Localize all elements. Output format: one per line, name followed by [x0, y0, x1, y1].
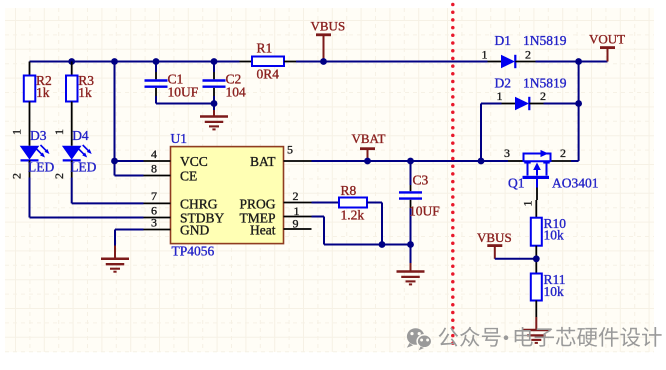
svg-text:10k: 10k: [544, 228, 565, 243]
ground U1: [101, 246, 129, 272]
label U1: [171, 131, 188, 146]
junction R8 bottom: [379, 241, 386, 248]
wire C1-C2 bottom: [156, 103, 214, 105]
wire R1-D1: [296, 61, 488, 63]
capacitor C3: [399, 161, 440, 245]
svg-text:R8: R8: [341, 183, 357, 198]
pin 2 U1: [284, 189, 312, 203]
junction VCC feed: [111, 158, 118, 165]
svg-text:LED: LED: [28, 160, 54, 175]
op-amp U1 TP4056 body: [171, 147, 284, 244]
resistor R1: [240, 41, 297, 82]
LED D3: [10, 102, 55, 180]
svg-text:VOUT: VOUT: [589, 32, 625, 47]
junction C2-bus: [211, 58, 218, 65]
svg-text:2: 2: [293, 189, 299, 203]
wire D2 anode: [480, 104, 482, 162]
svg-text:Q1: Q1: [508, 176, 525, 191]
resistor R10: [521, 188, 567, 246]
svg-text:10k: 10k: [544, 284, 565, 299]
pin 8 U1: [144, 161, 171, 175]
power VOUT: [589, 32, 625, 62]
junction C3 bottom: [407, 241, 414, 248]
svg-text:0R4: 0R4: [257, 67, 280, 82]
pin 7 U1: [144, 189, 171, 203]
svg-text:3: 3: [504, 146, 510, 160]
LED D4: [52, 102, 97, 180]
wire R8-bottom: [367, 203, 382, 245]
wire bus to VCC/CE: [115, 62, 144, 176]
label TP4056: [172, 244, 215, 259]
svg-text:1: 1: [482, 48, 488, 62]
ground R11: [522, 301, 550, 343]
svg-text:PROG: PROG: [239, 196, 275, 211]
svg-text:VCC: VCC: [180, 154, 208, 169]
wire TMEP-bottom: [312, 217, 411, 245]
power VBUS top: [311, 19, 346, 62]
svg-text:1: 1: [52, 129, 66, 135]
pin 5 U1: [284, 143, 312, 162]
pin 4 U1: [144, 147, 171, 161]
junction C2-gnd: [211, 100, 218, 107]
junction D2 feed: [478, 158, 485, 165]
wire VOUT rail: [578, 62, 580, 162]
pin 3 U1: [144, 215, 171, 229]
svg-text:104: 104: [226, 85, 247, 100]
junction VBUS divider: [533, 255, 540, 262]
svg-text:D1: D1: [495, 33, 512, 48]
svg-text:1: 1: [497, 89, 503, 103]
wire D4-CHRG: [72, 178, 144, 204]
svg-text:1k: 1k: [36, 85, 50, 100]
ground C2: [200, 104, 228, 130]
wire R10-R11: [535, 246, 537, 274]
resistor R11: [531, 272, 566, 301]
svg-text:AO3401: AO3401: [552, 176, 599, 191]
pin 9 U1: [284, 217, 312, 231]
wire D3-STDBY: [30, 178, 144, 218]
svg-text:2: 2: [525, 48, 531, 62]
svg-text:5: 5: [287, 143, 293, 157]
capacitor C1: [145, 62, 199, 104]
junction D2 out: [575, 100, 582, 107]
wire top VBUS bus: [30, 61, 240, 63]
wire GND pin: [115, 230, 144, 246]
power VBAT: [352, 131, 386, 161]
ground C3: [397, 245, 425, 285]
junction C3 top: [407, 158, 414, 165]
svg-text:C3: C3: [413, 173, 429, 188]
diode D1: [482, 33, 567, 68]
watermark logo: [407, 328, 432, 350]
junction C1-bus: [153, 58, 160, 65]
svg-text:VBAT: VBAT: [352, 131, 386, 146]
svg-text:CHRG: CHRG: [180, 196, 218, 211]
watermark text: [439, 327, 662, 347]
wire BAT row: [312, 160, 509, 162]
svg-text:10UF: 10UF: [168, 85, 199, 100]
svg-text:10UF: 10UF: [409, 204, 440, 219]
svg-text:VBUS: VBUS: [311, 19, 346, 34]
svg-text:1.2k: 1.2k: [341, 208, 365, 223]
resistor R2: [24, 62, 52, 102]
junction VCC-feed-bus: [111, 58, 118, 65]
svg-text:1: 1: [10, 129, 24, 135]
svg-text:2: 2: [52, 173, 66, 179]
svg-text:2: 2: [10, 173, 24, 179]
svg-text:7: 7: [151, 189, 157, 203]
junction D1 out: [575, 58, 582, 65]
svg-text:1: 1: [521, 201, 535, 207]
svg-text:U1: U1: [171, 131, 188, 146]
svg-text:LED: LED: [70, 160, 96, 175]
transistor Q1: [504, 146, 599, 191]
diode D2: [481, 76, 567, 111]
svg-text:GND: GND: [180, 222, 209, 237]
svg-text:R1: R1: [257, 41, 273, 56]
junction R3-bus: [68, 58, 75, 65]
resistor R3: [66, 62, 94, 102]
svg-text:D4: D4: [72, 128, 89, 143]
svg-text:8: 8: [151, 161, 157, 175]
svg-text:4: 4: [151, 147, 157, 161]
pin 6 U1: [144, 203, 171, 217]
wire D1-junction: [536, 61, 579, 63]
svg-text:CE: CE: [180, 169, 197, 184]
svg-text:Heat: Heat: [250, 222, 276, 237]
divider dotted line: [451, 3, 455, 345]
svg-text:9: 9: [293, 217, 299, 231]
svg-text:1k: 1k: [78, 85, 92, 100]
capacitor C2: [203, 62, 247, 104]
junction VBUS-bus: [320, 58, 327, 65]
svg-text:1N5819: 1N5819: [523, 33, 567, 48]
junction VBAT: [364, 158, 371, 165]
svg-text:2: 2: [560, 146, 566, 160]
svg-text:2: 2: [540, 89, 546, 103]
svg-text:BAT: BAT: [250, 154, 276, 169]
svg-text:3: 3: [151, 215, 157, 229]
svg-text:TP4056: TP4056: [172, 244, 215, 259]
wire to VOUT: [579, 61, 608, 63]
wire D2-rail: [544, 103, 579, 105]
resistor R8: [312, 183, 368, 223]
svg-text:VBUS: VBUS: [477, 230, 512, 245]
pin 1 U1: [284, 204, 312, 218]
power VBUS bottom: [477, 230, 536, 259]
svg-text:D3: D3: [30, 128, 47, 143]
